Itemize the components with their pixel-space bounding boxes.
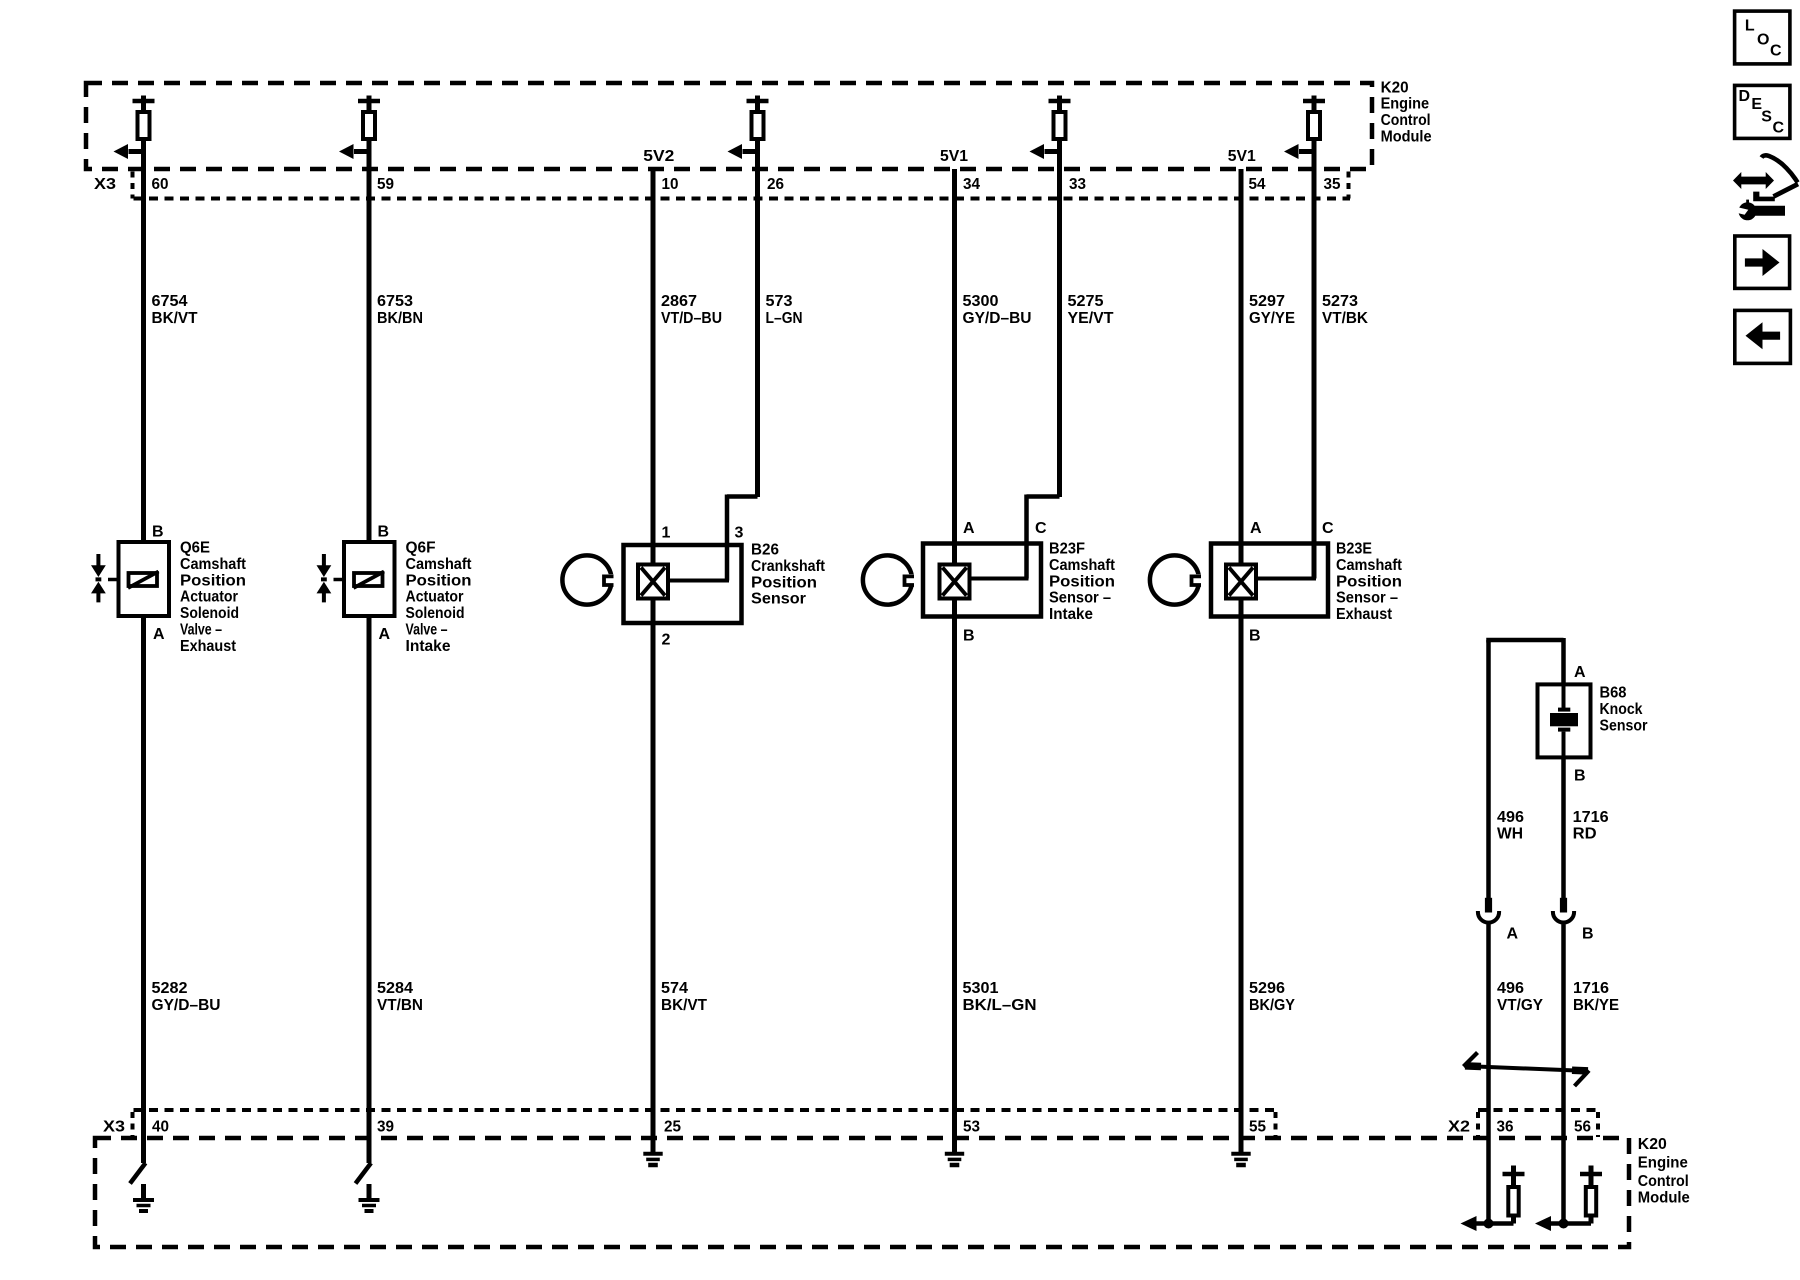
inline connector pin letter A xyxy=(1507,926,1519,943)
svg-text:5282: 5282 xyxy=(152,980,188,997)
net label 5V1 (pin 54) xyxy=(1228,148,1256,165)
connector X2 right separator xyxy=(1596,1112,1600,1137)
svg-text:Actuator: Actuator xyxy=(180,589,238,606)
connector X2 left separator xyxy=(1476,1112,1480,1137)
svg-text:34: 34 xyxy=(963,176,980,193)
svg-text:B: B xyxy=(152,524,164,541)
svg-text:Q6E: Q6E xyxy=(180,540,210,557)
LOC navigation box xyxy=(1735,11,1790,64)
B23E pin C xyxy=(1322,520,1334,537)
svg-text:5V1: 5V1 xyxy=(940,148,968,165)
svg-text:A: A xyxy=(153,626,165,643)
pin number 25 (bottom) xyxy=(664,1119,681,1136)
wire 5297 GY/YE xyxy=(1241,169,1295,566)
svg-text:B68: B68 xyxy=(1600,685,1627,702)
knock sensor B68 piezo element xyxy=(1550,684,1578,757)
svg-text:C: C xyxy=(1035,520,1047,537)
svg-text:GY/YE: GY/YE xyxy=(1249,310,1295,327)
wire pin A into sensor element xyxy=(952,544,957,567)
pin number 56 (bottom) xyxy=(1574,1119,1591,1136)
connector X3 right separator (top) xyxy=(1347,172,1351,199)
connector X3 body dotted line (bottom) xyxy=(134,1108,1276,1112)
harness crossing symbol xyxy=(1464,1053,1590,1087)
svg-text:B26: B26 xyxy=(751,542,779,559)
connector X3 body dotted line (top) xyxy=(134,197,1351,201)
ECM internal switched ground pin 40 xyxy=(130,1140,154,1211)
svg-text:Intake: Intake xyxy=(1049,606,1093,623)
svg-text:B: B xyxy=(1574,768,1586,785)
wire 5282 GY/D–BU xyxy=(144,618,221,1140)
pin number 39 (bottom) xyxy=(377,1119,394,1136)
svg-text:B: B xyxy=(1249,628,1261,645)
sensor B23E rotor circle xyxy=(1150,555,1205,604)
sensor B26 element (X) xyxy=(638,565,668,599)
B68 pin letter A xyxy=(1574,664,1586,681)
B26 pin 2 xyxy=(662,632,671,649)
svg-text:33: 33 xyxy=(1069,176,1086,193)
svg-text:A: A xyxy=(1250,520,1262,537)
B23F pin B xyxy=(963,628,975,645)
svg-text:5296: 5296 xyxy=(1249,980,1285,997)
svg-text:60: 60 xyxy=(152,176,169,193)
svg-text:39: 39 xyxy=(377,1119,394,1136)
Q6E pin letter A xyxy=(153,626,165,643)
inline connector terminal B (1716) xyxy=(1553,898,1574,1140)
wire 574 BK/VT xyxy=(653,599,707,1141)
pin number 26 (top) xyxy=(767,176,784,193)
wire 496 VT/GY label xyxy=(1497,980,1543,1014)
svg-text:Solenoid: Solenoid xyxy=(180,605,239,622)
wire 573 L–GN xyxy=(758,169,803,497)
svg-text:Position: Position xyxy=(1336,573,1402,590)
svg-text:Knock: Knock xyxy=(1600,701,1643,718)
svg-text:Sensor: Sensor xyxy=(1600,717,1648,734)
svg-text:B23E: B23E xyxy=(1336,541,1372,558)
pin number 59 (top) xyxy=(377,176,394,193)
B26 pin 1 xyxy=(662,525,671,542)
B23E pin B xyxy=(1249,628,1261,645)
svg-text:VT/D–BU: VT/D–BU xyxy=(661,310,722,327)
ECM internal ground pin 25 xyxy=(643,1140,662,1165)
Q6E component label xyxy=(180,540,247,655)
svg-text:Position: Position xyxy=(751,574,817,591)
svg-text:25: 25 xyxy=(664,1119,681,1136)
svg-text:WH: WH xyxy=(1497,825,1523,842)
svg-text:56: 56 xyxy=(1574,1119,1591,1136)
B26 component label xyxy=(751,542,826,608)
B23F component label xyxy=(1049,541,1116,624)
svg-text:Q6F: Q6F xyxy=(406,540,436,557)
svg-text:A: A xyxy=(1574,664,1586,681)
DESC navigation box xyxy=(1735,85,1790,138)
Q6E pin letter B xyxy=(152,524,164,541)
svg-text:Camshaft: Camshaft xyxy=(180,556,247,573)
svg-text:L: L xyxy=(1745,18,1755,35)
ECM internal driver pin 59 symbol xyxy=(339,96,380,172)
svg-text:Position: Position xyxy=(406,572,472,589)
svg-text:6753: 6753 xyxy=(377,293,413,310)
svg-text:B: B xyxy=(963,628,975,645)
wire 5275 YE/VT xyxy=(1060,169,1114,497)
sensor B23E element (X) xyxy=(1226,565,1256,599)
solenoid valve Q6E actuation arrows xyxy=(91,554,106,602)
svg-text:A: A xyxy=(1507,926,1519,943)
svg-text:Intake: Intake xyxy=(406,638,451,655)
connector X2 label xyxy=(1448,1119,1470,1136)
svg-text:5275: 5275 xyxy=(1068,293,1104,310)
ECM internal driver pin 33 symbol xyxy=(1030,96,1071,172)
connector X3 left separator (bottom) xyxy=(131,1112,135,1137)
svg-text:Position: Position xyxy=(180,572,246,589)
svg-text:A: A xyxy=(963,520,975,537)
wire 5273 VT/BK xyxy=(1314,169,1368,579)
svg-text:BK/L–GN: BK/L–GN xyxy=(963,997,1037,1014)
svg-text:O: O xyxy=(1757,32,1769,49)
svg-text:5V1: 5V1 xyxy=(1228,148,1256,165)
harness repair icon (arrows and wrench) xyxy=(1733,155,1798,220)
svg-text:X3: X3 xyxy=(103,1119,125,1136)
ECM internal switched ground pin 39 xyxy=(356,1140,380,1211)
svg-text:L–GN: L–GN xyxy=(766,310,803,327)
wire 5301 BK/L–GN xyxy=(955,599,1037,1141)
pin number 40 (bottom) xyxy=(152,1119,169,1136)
wire 5275 jog segment to B23F pin C xyxy=(970,495,1060,579)
svg-text:X3: X3 xyxy=(94,176,116,193)
svg-text:GY/D–BU: GY/D–BU xyxy=(152,997,221,1014)
ECM internal driver pin 35 symbol xyxy=(1284,96,1325,172)
wire 573 jog segment to B26 pin 3 xyxy=(668,495,758,581)
svg-text:1: 1 xyxy=(662,525,671,542)
svg-text:5297: 5297 xyxy=(1249,293,1285,310)
svg-text:5300: 5300 xyxy=(963,293,999,310)
svg-text:VT/GY: VT/GY xyxy=(1497,997,1543,1014)
sensor B23F element (X) xyxy=(940,565,970,599)
ECM internal bias network pin 36 xyxy=(1461,1140,1525,1231)
svg-text:Solenoid: Solenoid xyxy=(406,605,465,622)
svg-text:C: C xyxy=(1322,520,1334,537)
svg-text:6754: 6754 xyxy=(152,293,188,310)
B23F pin A xyxy=(963,520,975,537)
svg-text:53: 53 xyxy=(963,1119,980,1136)
svg-text:B: B xyxy=(1582,926,1594,943)
svg-text:VT/BN: VT/BN xyxy=(377,997,423,1014)
Q6F pin letter B xyxy=(378,524,390,541)
wire 5296 BK/GY xyxy=(1241,599,1295,1141)
svg-text:S: S xyxy=(1761,108,1772,125)
forward arrow box xyxy=(1735,236,1790,288)
wire 6753 BK/BN xyxy=(369,139,423,540)
solenoid valve Q6F box xyxy=(334,542,395,616)
svg-text:5301: 5301 xyxy=(963,980,999,997)
svg-text:1716: 1716 xyxy=(1573,980,1609,997)
svg-text:59: 59 xyxy=(377,176,394,193)
pin number 55 (bottom) xyxy=(1249,1119,1266,1136)
svg-text:2867: 2867 xyxy=(661,293,697,310)
B23E component label xyxy=(1336,541,1403,624)
svg-text:Engine: Engine xyxy=(1638,1155,1688,1172)
svg-text:BK/GY: BK/GY xyxy=(1249,997,1295,1014)
connector X2 body dotted line xyxy=(1478,1108,1598,1112)
svg-text:RD: RD xyxy=(1573,825,1597,842)
svg-text:2: 2 xyxy=(662,632,671,649)
svg-text:Module: Module xyxy=(1381,129,1432,146)
svg-text:54: 54 xyxy=(1249,176,1266,193)
pin number 53 (bottom) xyxy=(963,1119,980,1136)
svg-text:5V2: 5V2 xyxy=(643,148,674,165)
svg-text:10: 10 xyxy=(662,176,679,193)
pin number 34 (top) xyxy=(963,176,980,193)
svg-text:5284: 5284 xyxy=(377,980,413,997)
svg-text:BK/VT: BK/VT xyxy=(152,310,198,327)
net label 5V1 (pin 34) xyxy=(940,148,968,165)
svg-text:5273: 5273 xyxy=(1322,293,1358,310)
wire 5284 VT/BN xyxy=(369,618,423,1140)
inline connector pin letter B xyxy=(1582,926,1594,943)
svg-text:Control: Control xyxy=(1381,112,1431,129)
svg-text:C: C xyxy=(1773,119,1785,136)
B23F pin C xyxy=(1035,520,1047,537)
ECM module box K20 (top) xyxy=(86,83,1372,169)
ECM internal ground pin 55 xyxy=(1231,1140,1250,1165)
svg-text:A: A xyxy=(379,626,391,643)
Q6F pin letter A xyxy=(379,626,391,643)
svg-text:Sensor: Sensor xyxy=(751,591,806,608)
svg-text:496: 496 xyxy=(1497,980,1524,997)
connector X3 right separator (bottom) xyxy=(1274,1112,1278,1137)
sensor B26 rotor circle xyxy=(562,555,617,604)
svg-text:573: 573 xyxy=(766,293,793,310)
svg-text:Exhaust: Exhaust xyxy=(180,638,237,655)
svg-text:Control: Control xyxy=(1638,1173,1689,1190)
B68 component label xyxy=(1600,685,1648,735)
pin number 33 (top) xyxy=(1069,176,1086,193)
connector X3 label (top) xyxy=(94,176,116,193)
wire 1716 BK/YE label xyxy=(1573,980,1619,1014)
ECM module box K20 (bottom) xyxy=(95,1138,1629,1247)
connector X3 label (bottom) xyxy=(103,1119,125,1136)
wire 5273 segment to B23E pin C xyxy=(1256,577,1316,581)
svg-text:Camshaft: Camshaft xyxy=(1049,557,1116,574)
svg-text:YE/VT: YE/VT xyxy=(1068,310,1114,327)
solenoid valve Q6E box xyxy=(108,542,169,616)
Q6F component label xyxy=(406,540,473,655)
sensor B23F rotor circle xyxy=(863,555,918,604)
svg-text:Position: Position xyxy=(1049,573,1115,590)
sensor B26 box xyxy=(624,545,742,623)
wire 6754 BK/VT xyxy=(144,139,198,540)
pin number 54 (top) xyxy=(1249,176,1266,193)
wire 496 WH xyxy=(1489,640,1525,898)
svg-text:BK/BN: BK/BN xyxy=(377,310,423,327)
svg-text:1716: 1716 xyxy=(1573,809,1609,826)
pin number 60 (top) xyxy=(152,176,169,193)
B26 pin 3 xyxy=(735,525,744,542)
svg-text:Camshaft: Camshaft xyxy=(406,556,473,573)
pin number 10 (top) xyxy=(662,176,679,193)
knock sensor B68 box xyxy=(1538,684,1591,757)
svg-text:496: 496 xyxy=(1497,809,1524,826)
svg-text:Sensor –: Sensor – xyxy=(1049,590,1111,607)
svg-text:B23F: B23F xyxy=(1049,541,1085,558)
wire B68 pin A jumper to 496 xyxy=(1489,638,1564,684)
svg-text:574: 574 xyxy=(661,980,688,997)
svg-text:B: B xyxy=(378,524,390,541)
svg-text:55: 55 xyxy=(1249,1119,1266,1136)
wire 5300 GY/D–BU xyxy=(955,169,1032,566)
net label 5V2 xyxy=(643,148,674,165)
B23E pin A xyxy=(1250,520,1262,537)
svg-text:D: D xyxy=(1739,88,1751,105)
solenoid valve Q6F actuation arrows xyxy=(317,554,332,602)
svg-text:Engine: Engine xyxy=(1381,96,1430,113)
sensor B23F box xyxy=(923,544,1041,617)
ECM K20 label (top) xyxy=(1381,79,1432,145)
svg-text:BK/VT: BK/VT xyxy=(661,997,707,1014)
ECM internal ground pin 53 xyxy=(945,1140,964,1165)
svg-text:36: 36 xyxy=(1497,1119,1514,1136)
svg-text:40: 40 xyxy=(152,1119,169,1136)
svg-text:26: 26 xyxy=(767,176,784,193)
svg-text:Module: Module xyxy=(1638,1190,1690,1207)
svg-text:Sensor –: Sensor – xyxy=(1336,590,1398,607)
svg-text:C: C xyxy=(1770,42,1782,59)
svg-text:Camshaft: Camshaft xyxy=(1336,557,1403,574)
svg-text:Crankshaft: Crankshaft xyxy=(751,558,826,575)
wire 2867 VT/D–BU xyxy=(653,169,722,566)
svg-text:35: 35 xyxy=(1324,176,1341,193)
pin number 35 (top) xyxy=(1324,176,1341,193)
svg-text:VT/BK: VT/BK xyxy=(1322,310,1368,327)
ECM internal bias network pin 56 xyxy=(1535,1140,1602,1231)
ECM internal driver pin 26 symbol xyxy=(728,96,769,172)
svg-text:Exhaust: Exhaust xyxy=(1336,606,1393,623)
pin number 36 (bottom) xyxy=(1497,1119,1514,1136)
svg-text:Valve –: Valve – xyxy=(180,622,222,639)
sensor B23E box xyxy=(1211,544,1328,617)
svg-text:GY/D–BU: GY/D–BU xyxy=(963,310,1032,327)
wire pin A into sensor element xyxy=(1239,544,1244,567)
svg-text:3: 3 xyxy=(735,525,744,542)
wire pin A into sensor element xyxy=(651,545,656,566)
ECM internal driver pin 60 symbol xyxy=(114,96,155,172)
ECM K20 label (bottom) xyxy=(1638,1136,1690,1207)
svg-text:Valve –: Valve – xyxy=(406,622,448,639)
svg-text:K20: K20 xyxy=(1381,79,1409,96)
svg-text:X2: X2 xyxy=(1448,1119,1470,1136)
svg-text:BK/YE: BK/YE xyxy=(1573,997,1619,1014)
B68 pin letter B xyxy=(1574,768,1586,785)
back arrow box xyxy=(1735,310,1791,363)
connector X3 left separator (top) xyxy=(131,172,135,199)
wire 1716 RD xyxy=(1564,757,1609,898)
svg-text:K20: K20 xyxy=(1638,1136,1667,1153)
svg-text:Actuator: Actuator xyxy=(406,589,464,606)
inline connector terminal A (496) xyxy=(1478,898,1499,1140)
